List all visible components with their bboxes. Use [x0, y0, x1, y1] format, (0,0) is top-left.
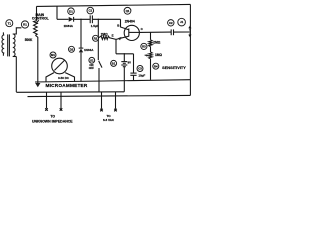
svg-text:MICROAMMETER: MICROAMMETER: [46, 83, 88, 88]
svg-text:B1: B1: [112, 62, 116, 66]
switch S1 wire and blade: [97, 19, 99, 60]
designator S1: [89, 57, 95, 63]
wire wiper arrow into R4: [145, 54, 147, 56]
transistor Q1 2N404: [116, 19, 139, 40]
designator T1: [6, 20, 13, 27]
designator C2: [168, 20, 174, 26]
designator R2: [93, 35, 99, 41]
battery B1: [121, 62, 127, 92]
capacitor C1: [89, 15, 91, 23]
wire bottom upper rail: [16, 91, 124, 94]
svg-text:SENSITIVITY: SENSITIVITY: [162, 65, 186, 70]
designator R3: [141, 43, 147, 49]
svg-text:J1: J1: [180, 20, 184, 24]
designator R1: [21, 21, 28, 28]
wire vertical x57 from top rail to D1 rail: [56, 6, 58, 19]
svg-text:1N34A: 1N34A: [64, 24, 74, 28]
svg-text:OFF: OFF: [89, 66, 95, 70]
svg-text:D1: D1: [69, 9, 73, 13]
designator D1: [68, 8, 75, 15]
svg-text:T1: T1: [8, 21, 12, 25]
designator B1: [111, 60, 117, 66]
transformer T1: [2, 28, 21, 57]
designator Q1: [124, 7, 131, 14]
wire right border: [189, 4, 191, 95]
wire top rail: [37, 4, 191, 6]
svg-text:2N404: 2N404: [125, 19, 135, 23]
svg-text:1.5µF: 1.5µF: [91, 24, 99, 28]
svg-text:1MΩ: 1MΩ: [155, 53, 162, 57]
diode D1: [69, 17, 74, 22]
svg-text:S1: S1: [90, 58, 94, 62]
svg-text:M1: M1: [51, 53, 55, 57]
terminal stub 3: [101, 92, 103, 109]
wire R1 wiper annotation arrow: [37, 20, 39, 22]
wire R1 top lead: [36, 6, 38, 20]
wire emitter branch down: [115, 39, 117, 53]
designator D2: [69, 46, 75, 52]
resistor R3 2M vertical: [150, 32, 152, 40]
svg-text:500K: 500K: [25, 38, 33, 42]
terminal stub 2: [60, 92, 62, 108]
terminal stub 4: [115, 92, 117, 109]
svg-text:2MΩ: 2MΩ: [153, 41, 160, 45]
svg-text:2MΩ: 2MΩ: [101, 33, 108, 37]
svg-text:C3: C3: [138, 67, 142, 71]
wire wiper arrow onto rail: [35, 83, 40, 87]
svg-text:C1: C1: [88, 9, 92, 13]
svg-text:Q1: Q1: [126, 9, 130, 13]
wire R1 bottom lead down: [35, 35, 37, 83]
svg-text:10µF: 10µF: [138, 74, 145, 78]
designator J1: [178, 18, 186, 26]
capacitor C3 electrolytic: [116, 54, 137, 80]
node A right border: [188, 26, 191, 29]
svg-text:CONTROL: CONTROL: [32, 16, 49, 20]
svg-text:R2: R2: [94, 36, 98, 40]
wire left vertical from transformer secondary bottom: [15, 57, 17, 93]
designator R4: [153, 63, 159, 69]
designator C3: [137, 66, 143, 72]
designator M1: [50, 52, 56, 58]
svg-text:D2: D2: [70, 47, 74, 51]
svg-text:R3: R3: [142, 45, 146, 49]
wire collector lead to right: [139, 31, 171, 33]
capacitor C2: [170, 29, 172, 35]
meter M1 microammeter: [46, 58, 75, 82]
wire bottom lower rail: [28, 95, 191, 96]
terminal stub 1: [46, 92, 48, 108]
designator C1: [87, 7, 94, 14]
svg-text:R4: R4: [154, 64, 158, 68]
svg-text:0-50 DC: 0-50 DC: [58, 76, 70, 80]
node junction S1 top: [98, 19, 99, 20]
node junction D2 top: [80, 19, 81, 20]
svg-text:TO: TO: [50, 115, 55, 119]
resistor R2 zigzag horizontal: [98, 36, 116, 39]
wire meter rail: [35, 80, 190, 82]
potentiometer R1 zigzag: [34, 21, 38, 36]
diode D2 with vertical wire: [80, 19, 82, 48]
svg-text:C2: C2: [169, 21, 173, 25]
svg-text:9V: 9V: [128, 61, 131, 65]
svg-text:6.3 VAC: 6.3 VAC: [103, 118, 115, 122]
svg-text:1N34A: 1N34A: [84, 48, 94, 52]
wire rail with D1 and C1: [57, 18, 69, 20]
potentiometer R4 sensitivity: [150, 47, 152, 52]
svg-text:UNKNOWN IMPEDANCE: UNKNOWN IMPEDANCE: [32, 119, 73, 123]
svg-text:E: E: [112, 34, 114, 38]
svg-text:R1: R1: [23, 23, 27, 27]
